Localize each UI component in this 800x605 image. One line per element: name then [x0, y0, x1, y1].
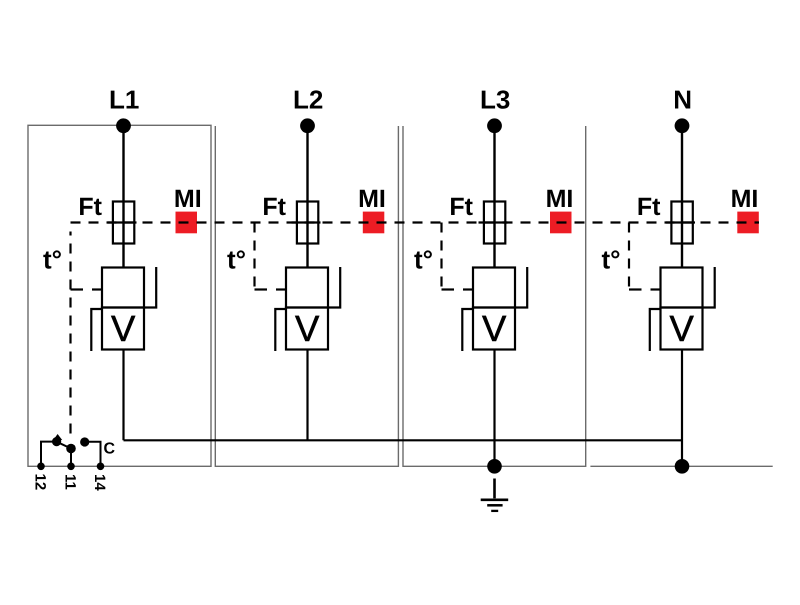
terminal L3 [487, 118, 502, 133]
solid crossing of signal line at fuse Ft1 [108, 221, 137, 223]
indicator MI2 red square [363, 212, 385, 234]
svg-text:L3: L3 [480, 85, 510, 115]
thermal disconnector box (module 4) [661, 268, 703, 308]
module 4 bottom rail line [590, 465, 772, 467]
t-sensor dashed wire vertical (module 2) [253, 223, 255, 291]
solid crossing of signal line at fuse Ft4 [666, 221, 695, 223]
terminal 11 [67, 463, 75, 471]
svg-text:N: N [673, 85, 692, 115]
terminal N [675, 118, 690, 133]
contact fixed point 12 [52, 437, 61, 446]
t-sensor dashed wire horizontal (module 1) [71, 288, 84, 290]
varistor V4 box [661, 308, 703, 350]
svg-text:L2: L2 [293, 85, 323, 115]
terminal L1 [116, 118, 131, 133]
t-sensor dashed wire vertical (module 1) [69, 232, 71, 434]
svg-text:V: V [670, 308, 695, 349]
junction node N output [675, 459, 690, 474]
terminal 12 [37, 463, 45, 471]
svg-text:t°: t° [414, 245, 433, 275]
disconnector bracket right (module 3) [516, 267, 528, 308]
module 1 enclosure box [28, 125, 211, 466]
disconnector bracket right (module 1) [145, 267, 157, 308]
svg-text:V: V [111, 308, 136, 349]
terminal L2 [300, 118, 315, 133]
disconnector bracket right (module 2) [329, 267, 341, 308]
bus wire joining varistor outputs [124, 439, 683, 441]
contact fixed point 14 [80, 437, 89, 446]
indicator MI4 red square [737, 212, 759, 234]
wire contact 14 down to terminal [85, 442, 101, 467]
svg-text:t°: t° [227, 245, 246, 275]
svg-text:L1: L1 [109, 85, 139, 115]
wire L2 to disconnector [306, 126, 308, 268]
svg-text:C: C [104, 441, 116, 458]
solid crossing of signal line at fuse Ft3 [479, 221, 508, 223]
wire terminal 12 up and across [41, 442, 53, 467]
varistor V2 box [286, 308, 328, 350]
thermal disconnector box (module 2) [286, 268, 328, 308]
t-sensor contact tick into disconnector (module 4) [651, 288, 662, 290]
wire N to disconnector [681, 126, 683, 268]
svg-text:12: 12 [32, 474, 49, 491]
t-sensor dashed wire vertical (module 4) [628, 223, 630, 291]
indicator MI1 red square [176, 212, 198, 234]
svg-text:11: 11 [62, 474, 79, 490]
svg-text:Ft: Ft [449, 193, 473, 221]
varistor V3 box [473, 308, 515, 350]
ground symbol [481, 500, 509, 511]
wire pivot to terminal 11 [70, 449, 72, 467]
svg-text:MI: MI [174, 185, 202, 213]
t-sensor contact tick into disconnector (module 2) [276, 288, 287, 290]
wire varistor V3 down [493, 350, 495, 467]
disconnector bracket right (module 4) [703, 267, 715, 308]
module 3 enclosure box [403, 126, 586, 466]
thermal disconnector box (module 1) [102, 268, 144, 308]
wire varistor V4 down [681, 350, 683, 467]
terminal 14 [97, 463, 105, 471]
module 2 enclosure box [215, 126, 398, 466]
svg-text:V: V [295, 308, 320, 349]
wire varistor V2 down [306, 350, 308, 441]
svg-text:MI: MI [358, 185, 386, 213]
varistor bracket left (module 2) [275, 309, 286, 351]
varistor V1 box [102, 308, 144, 350]
ground stem wire [493, 479, 496, 499]
fuse Ft2 [297, 202, 318, 244]
contact moving arm [57, 442, 71, 449]
contact arm arrowhead [52, 434, 62, 441]
indicator MI3 red square [550, 212, 572, 234]
svg-text:t°: t° [602, 245, 621, 275]
t-sensor dashed wire vertical (module 3) [440, 223, 442, 291]
t-sensor dashed wire horizontal (module 4) [629, 288, 642, 290]
svg-text:V: V [482, 308, 507, 349]
t-sensor contact tick into disconnector (module 3) [463, 288, 474, 290]
svg-text:t°: t° [43, 245, 62, 275]
fuse Ft3 [484, 202, 505, 244]
varistor bracket left (module 4) [650, 309, 661, 351]
dashed disconnection indication signal line [71, 221, 760, 223]
contact pivot (terminal 11) [66, 444, 76, 454]
solid crossing of signal line at fuse Ft2 [292, 221, 321, 223]
svg-text:Ft: Ft [637, 193, 661, 221]
fuse Ft1 [113, 202, 134, 244]
svg-text:Ft: Ft [262, 193, 286, 221]
wire L3 to disconnector [493, 126, 495, 268]
t-sensor dashed wire horizontal (module 2) [255, 288, 268, 290]
svg-text:MI: MI [546, 185, 574, 213]
wire varistor V1 down [122, 350, 124, 441]
fuse Ft4 [671, 202, 692, 244]
svg-text:MI: MI [731, 185, 759, 213]
t-sensor dashed wire horizontal (module 3) [442, 288, 455, 290]
varistor bracket left (module 1) [91, 309, 102, 351]
svg-text:14: 14 [91, 474, 108, 491]
junction node PE (L3 output) [487, 459, 502, 474]
wire L1 to disconnector [122, 126, 124, 268]
svg-text:Ft: Ft [78, 193, 102, 221]
varistor bracket left (module 3) [462, 309, 473, 351]
t-sensor contact tick into disconnector (module 1) [92, 288, 103, 290]
thermal disconnector box (module 3) [473, 268, 515, 308]
